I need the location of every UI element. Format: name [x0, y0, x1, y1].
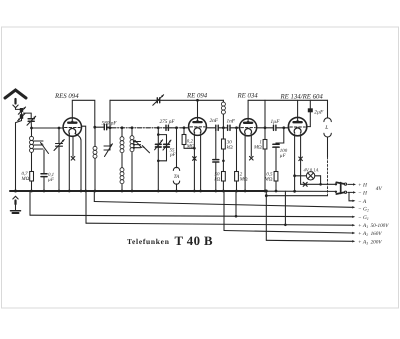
svg-text:− G1: − G1 — [358, 215, 369, 221]
svg-text:RE 094: RE 094 — [186, 93, 208, 100]
wire tube3 filament legs — [244, 135, 246, 191]
trimmer block padder — [155, 126, 171, 191]
svg-text:MΩ: MΩ — [186, 144, 195, 150]
node grid line tube1 — [30, 127, 33, 130]
svg-text:275 pF: 275 pF — [160, 119, 176, 125]
node rail corner — [109, 100, 111, 128]
marker x heater — [303, 182, 307, 186]
wire G1 tap — [235, 191, 238, 218]
wire antenna down lead — [16, 108, 22, 110]
wire tube3 grid out / coupling — [257, 127, 274, 129]
antenna coil L1 — [30, 128, 34, 172]
capacitor 580pF — [95, 125, 110, 130]
jack TA — [173, 126, 179, 191]
wire HT rail right segment — [248, 99, 327, 101]
wire tube3 anode box — [247, 100, 249, 121]
resistor R 0.7M — [30, 172, 34, 182]
svg-text:MΩ: MΩ — [264, 177, 273, 183]
svg-text:MΩ: MΩ — [253, 145, 262, 151]
variable capacitor tuning 1 — [54, 127, 64, 191]
tube U4 RE134 — [288, 117, 306, 135]
ground symbol — [11, 190, 21, 214]
switch link bar — [340, 183, 342, 194]
supply line G2 — [94, 191, 355, 209]
svg-text:+ A2 160V: + A2 160V — [358, 231, 382, 237]
svg-text:2µF: 2µF — [314, 110, 324, 116]
coil taps with arrows — [133, 140, 150, 153]
svg-text:TA: TA — [174, 174, 180, 180]
supply line A1 — [86, 191, 355, 226]
trimmer capacitor antenna upper — [18, 107, 25, 114]
coil IF primary — [120, 126, 124, 167]
coil L2 — [93, 127, 97, 191]
wire grid line to tube1 — [32, 127, 64, 129]
wire tube1 filament legs — [68, 134, 70, 191]
svg-text:2nF: 2nF — [210, 118, 219, 124]
wire to terminal A — [349, 192, 352, 200]
tube U1 RES094 — [63, 118, 81, 136]
wire tube2 filament legs — [193, 134, 195, 191]
wire tube2 anode out — [206, 127, 215, 129]
capacitor 2nF — [216, 125, 228, 130]
svg-text:4V 0,1A: 4V 0,1A — [304, 167, 319, 173]
supply line A3 — [265, 191, 355, 243]
capacitor 1uF — [274, 125, 289, 130]
lamp 4V 0.1A — [293, 172, 322, 186]
coil taps L1 — [34, 141, 49, 154]
switch band selector — [104, 128, 112, 157]
variable capacitor C-ant — [23, 113, 36, 128]
coil IF secondary — [130, 126, 134, 191]
tube U2 RE094 — [189, 118, 207, 136]
capacitor 100 with resistor 0.5M — [273, 126, 285, 191]
trimmer capacitor antenna lower — [16, 112, 26, 191]
resistor 30k — [222, 128, 226, 172]
svg-text:L: L — [324, 125, 328, 131]
resistor 50k — [222, 172, 226, 192]
jack L speaker — [324, 100, 331, 195]
svg-text:580 pF: 580 pF — [102, 120, 118, 126]
svg-text:− H: − H — [358, 190, 368, 196]
svg-text:1nF: 1nF — [227, 119, 236, 125]
svg-text:pF: pF — [169, 152, 176, 158]
svg-text:+ A3 200V: + A3 200V — [358, 239, 382, 245]
capacitor 1nF — [228, 125, 240, 130]
coil oscillator lower — [120, 168, 124, 191]
wire tube4 anode to rail — [297, 100, 299, 120]
capacitor 0.1uF — [41, 150, 47, 191]
wire grid line mid — [107, 127, 112, 129]
marker x tube4 — [299, 157, 303, 161]
resistor 2M — [235, 126, 239, 191]
tube U3 RE034 — [240, 119, 257, 136]
resistor 1M — [263, 100, 267, 191]
marker x tube1 — [72, 136, 74, 156]
svg-text:µF: µF — [280, 153, 287, 159]
wire tube1 right lead — [82, 126, 86, 191]
wire heater line to switch — [301, 183, 336, 185]
svg-text:kΩ: kΩ — [227, 145, 233, 151]
marker x tube2 — [193, 157, 197, 161]
svg-text:kΩ: kΩ — [215, 177, 221, 183]
wire tube4 filament legs — [294, 135, 296, 192]
wire A1 tap — [284, 191, 287, 226]
svg-text:T 40 B: T 40 B — [175, 234, 213, 248]
svg-text:− A: − A — [358, 199, 367, 205]
svg-text:MΩ: MΩ — [239, 177, 248, 183]
coil 600 choke — [221, 100, 225, 129]
svg-text:− G2: − G2 — [358, 207, 369, 213]
svg-text:RES 094: RES 094 — [54, 93, 79, 100]
svg-text:RE 134/RE 604: RE 134/RE 604 — [280, 94, 324, 101]
svg-text:MΩ: MΩ — [21, 176, 30, 182]
svg-text:µF: µF — [48, 177, 55, 183]
wire tube2 anode to rail — [197, 100, 199, 120]
svg-text:RE 034: RE 034 — [237, 93, 259, 100]
resistor 0.2M grid leak — [182, 126, 196, 149]
bus junction dots — [30, 190, 296, 193]
antenna — [5, 90, 26, 108]
svg-text:1µF: 1µF — [271, 119, 281, 125]
switch upper pole — [335, 182, 356, 185]
wire tube1 anode box — [72, 100, 95, 127]
capacitor 275pF — [166, 125, 168, 130]
supply line G1 — [30, 191, 355, 218]
marker x tube3 — [250, 156, 254, 160]
switch lower pole — [335, 191, 356, 194]
node anode junction — [93, 126, 96, 129]
capacitor 2uF block — [307, 100, 313, 126]
svg-text:4V: 4V — [376, 186, 383, 192]
wire HT rail left segment — [110, 99, 223, 101]
ground bus — [10, 190, 266, 192]
supply line A2 — [224, 191, 355, 234]
svg-text:+ A1 50-100V: + A1 50-100V — [358, 223, 389, 229]
trimmer capacitor in rail — [153, 95, 164, 106]
capacitor to ground below 2nF — [213, 130, 219, 191]
svg-text:Telefunken: Telefunken — [127, 237, 170, 246]
svg-text:+ H: + H — [358, 183, 368, 189]
